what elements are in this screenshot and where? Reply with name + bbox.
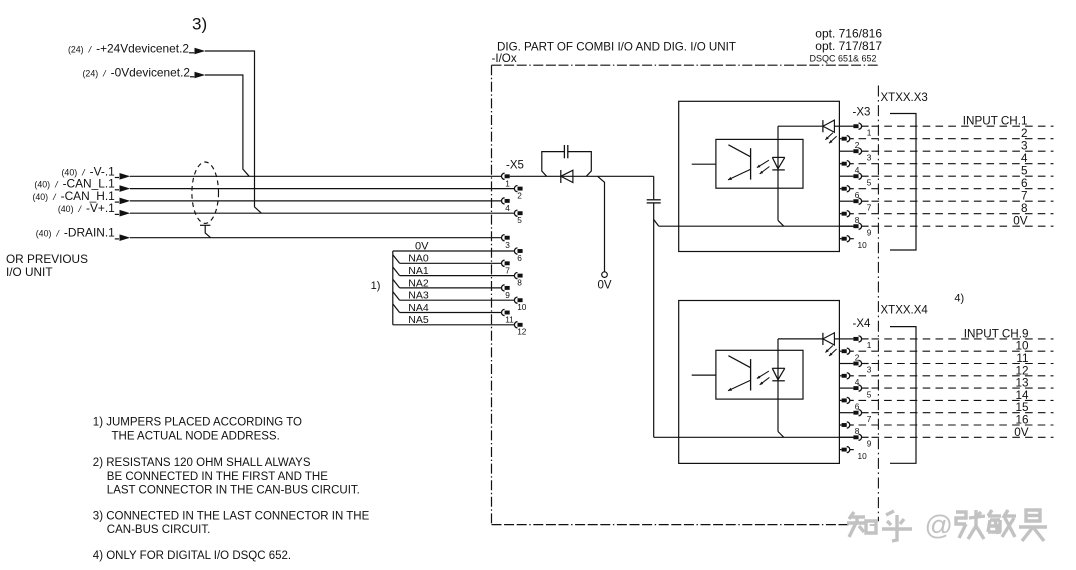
svg-text:11: 11 [505,315,514,325]
svg-text:INPUT CH.1: INPUT CH.1 [963,115,1028,128]
svg-text:8: 8 [517,277,522,287]
svg-text:THE ACTUAL NODE ADDRESS.: THE ACTUAL NODE ADDRESS. [112,431,280,443]
svg-text:NA2: NA2 [408,277,429,289]
svg-text:NA0: NA0 [408,253,429,265]
svg-text:10: 10 [1015,340,1029,353]
svg-text:-I/Ox: -I/Ox [492,52,517,65]
svg-text:4) ONLY FOR DIGITAL I/O DSQC 6: 4) ONLY FOR DIGITAL I/O DSQC 652. [93,550,291,562]
svg-text:7: 7 [867,202,872,212]
svg-text:NA4: NA4 [408,302,429,314]
svg-text:XTXX.X3: XTXX.X3 [881,92,928,104]
svg-text:6: 6 [1021,177,1028,190]
svg-text:9: 9 [867,439,872,449]
svg-text:1: 1 [505,179,510,189]
svg-text:2: 2 [517,190,522,200]
svg-text:2) RESISTANS 120 OHM SHALL ALW: 2) RESISTANS 120 OHM SHALL ALWAYS [93,457,311,469]
svg-text:LAST CONNECTOR IN THE CAN-BUS: LAST CONNECTOR IN THE CAN-BUS CIRCUIT. [107,484,360,496]
svg-text:-X3: -X3 [853,107,871,119]
svg-text:DIG. PART OF COMBI I/O AND DIG: DIG. PART OF COMBI I/O AND DIG. I/O UNIT [497,41,736,54]
svg-text:5: 5 [867,177,872,187]
svg-text:3) CONNECTED IN THE LAST CONNE: 3) CONNECTED IN THE LAST CONNECTOR IN TH… [93,511,370,523]
svg-text:12: 12 [517,327,527,337]
svg-text:2: 2 [1021,127,1028,140]
svg-text:0V: 0V [1013,215,1028,228]
svg-text:7: 7 [1021,190,1028,203]
svg-text:10: 10 [858,451,868,461]
svg-text:12: 12 [1015,364,1028,377]
svg-text:4): 4) [954,293,964,305]
svg-text:5: 5 [867,389,872,399]
svg-text:10: 10 [858,240,868,250]
svg-text:3): 3) [192,15,207,34]
svg-text:0V: 0V [415,240,429,252]
svg-text:5: 5 [517,215,522,225]
svg-text:INPUT CH.9: INPUT CH.9 [964,327,1029,340]
svg-text:1: 1 [867,340,872,350]
svg-text:3: 3 [867,365,872,375]
svg-text:7: 7 [867,414,872,424]
svg-text:(24) / -+24Vdevicenet.2: (24) / -+24Vdevicenet.2 [68,42,189,56]
svg-text:opt. 717/817: opt. 717/817 [815,39,882,53]
svg-text:DSQC 651& 652: DSQC 651& 652 [809,54,876,64]
svg-text:4: 4 [1021,152,1028,165]
svg-text:14: 14 [1015,389,1029,402]
svg-text:@: @ [925,510,953,541]
svg-text:5: 5 [1021,165,1028,178]
svg-text:(40) / -V+.1: (40) / -V+.1 [58,201,115,215]
svg-text:9: 9 [505,290,510,300]
svg-text:NA1: NA1 [408,265,429,277]
svg-text:(40) / -DRAIN.1: (40) / -DRAIN.1 [36,226,115,240]
svg-text:1): 1) [371,280,381,292]
svg-text:1) JUMPERS PLACED ACCORDING TO: 1) JUMPERS PLACED ACCORDING TO [93,417,302,429]
svg-text:NA3: NA3 [408,290,429,302]
svg-text:0V: 0V [597,280,611,292]
svg-text:3: 3 [867,152,872,162]
svg-text:13: 13 [1015,377,1028,390]
svg-text:4: 4 [505,203,510,213]
svg-text:10: 10 [517,302,527,312]
svg-text:15: 15 [1015,401,1029,414]
svg-text:3: 3 [505,240,510,250]
svg-text:0V: 0V [1014,426,1029,439]
svg-text:-X5: -X5 [506,160,524,172]
svg-text:7: 7 [505,266,510,276]
svg-text:3: 3 [1021,140,1028,153]
svg-text:(24) / -0Vdevicenet.2: (24) / -0Vdevicenet.2 [83,66,191,80]
svg-text:OR PREVIOUS: OR PREVIOUS [6,252,88,266]
svg-text:9: 9 [867,227,872,237]
svg-text:-X4: -X4 [853,318,872,330]
svg-text:8: 8 [1021,202,1028,215]
svg-text:XTXX.X4: XTXX.X4 [881,305,929,317]
svg-text:BE CONNECTED IN THE FIRST AND: BE CONNECTED IN THE FIRST AND THE [107,471,328,483]
svg-text:I/O UNIT: I/O UNIT [6,265,53,279]
svg-text:11: 11 [1016,352,1028,365]
svg-text:16: 16 [1015,414,1028,427]
svg-text:CAN-BUS CIRCUIT.: CAN-BUS CIRCUIT. [107,524,211,536]
svg-text:6: 6 [517,253,522,263]
svg-text:1: 1 [867,127,872,137]
svg-text:NA5: NA5 [408,314,429,326]
